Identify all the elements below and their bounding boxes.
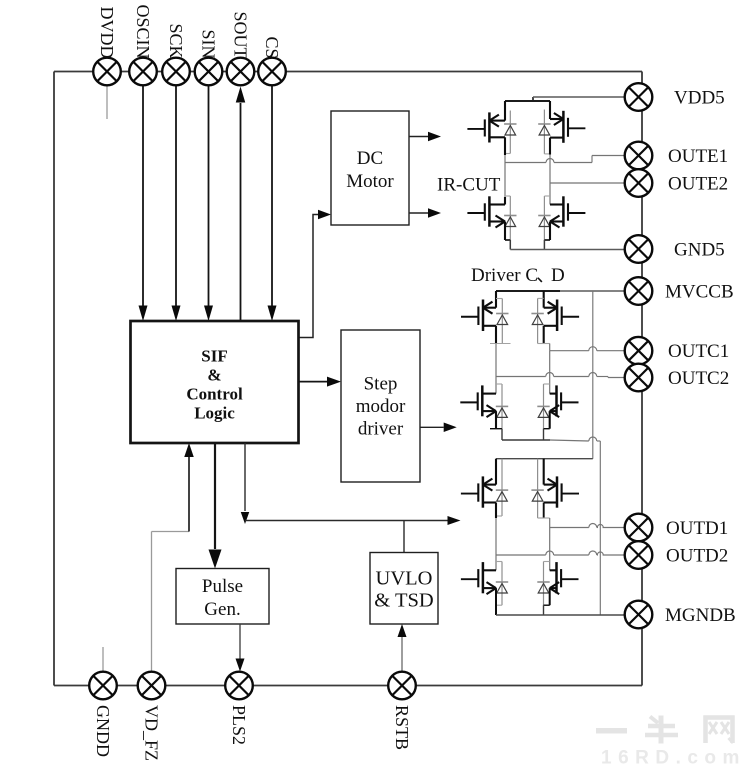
wire OUTD1 node to Q12 — [549, 528, 551, 571]
wire bridge E GND rail — [510, 249, 625, 251]
transistor Q11 — [482, 562, 485, 593]
wire Q8 source to C gnd rail — [549, 411, 551, 429]
wire Q9 source node — [495, 503, 497, 519]
block DC Motor — [331, 111, 409, 225]
pin SCK — [162, 58, 190, 86]
watermark yiniu char1 — [596, 728, 627, 734]
diode D9 — [501, 459, 503, 516]
wire SIF to Pulse Gen — [214, 443, 216, 549]
diode D11 — [501, 562, 503, 606]
wire bridge C VCC rail — [496, 290, 560, 292]
diode D6 — [537, 298, 539, 343]
wire DC Motor output 2 — [409, 212, 428, 214]
transistor Q10 — [543, 459, 545, 485]
svg-text:Control: Control — [186, 385, 243, 404]
svg-text:OUTC2: OUTC2 — [668, 368, 729, 389]
wire SCK to SIF — [175, 86, 177, 308]
block SIF & Control Logic U1 — [131, 321, 299, 443]
diode D1 — [509, 111, 511, 154]
pin OUTD2 — [625, 541, 653, 569]
svg-text:DVDD: DVDD — [97, 7, 117, 59]
transistor Q2 — [549, 101, 551, 119]
svg-text:OUTC1: OUTC1 — [668, 341, 729, 362]
block Pulse Gen — [176, 569, 269, 625]
pin RSTB — [388, 672, 416, 700]
wire DC Motor output 1 — [409, 136, 428, 138]
svg-text:MGNDB: MGNDB — [665, 605, 736, 626]
wire OUTC2 — [495, 344, 497, 377]
pin VDD5 — [625, 83, 653, 111]
svg-text:IR-CUT: IR-CUT — [437, 175, 501, 196]
svg-text:OUTE2: OUTE2 — [668, 173, 728, 194]
wire OUTC1 node to Q8 — [549, 351, 551, 394]
transistor Q3 — [488, 196, 491, 226]
svg-text:RSTB: RSTB — [392, 705, 412, 750]
watermark yiniu char3 — [706, 718, 733, 744]
wire SIF to Step driver — [299, 381, 327, 383]
svg-text:UVLO: UVLO — [376, 568, 433, 590]
wire CS to SIF — [271, 86, 273, 308]
wire Q3 source to GND rail — [504, 222, 506, 241]
wire OUTD1 — [550, 527, 589, 529]
wire Q5 source node — [495, 326, 497, 344]
svg-text:DC: DC — [357, 148, 383, 169]
svg-text:Gen.: Gen. — [204, 599, 240, 620]
wire top rail — [54, 71, 642, 73]
svg-text:driver: driver — [358, 418, 404, 439]
block UVLO & TSD — [370, 553, 438, 625]
wire OSCIN to SIF — [142, 86, 144, 308]
wire node to Q11 — [495, 555, 497, 570]
pin MVCCB — [625, 277, 653, 305]
wire SIF driver-D control — [244, 443, 246, 511]
svg-text:Logic: Logic — [194, 404, 235, 423]
wire Q12 source to MGNDB rail — [549, 588, 551, 605]
svg-text:SIF: SIF — [201, 347, 227, 366]
wire bridge C gnd rail to MGNDB feed — [502, 439, 550, 441]
svg-text:OUTD2: OUTD2 — [666, 545, 728, 566]
wire bridge D MGNDB rail — [496, 614, 625, 616]
pin GND5 — [625, 235, 653, 263]
pin OUTE1 — [625, 142, 653, 170]
svg-text:& TSD: & TSD — [374, 590, 433, 612]
wire right rail — [641, 72, 643, 686]
diode D12 — [543, 562, 545, 606]
wire SIF to DC Motor — [299, 215, 318, 338]
pin MGNDB — [625, 601, 653, 629]
svg-text:modor: modor — [356, 396, 406, 417]
diode D2 — [543, 110, 545, 154]
wire Q6 source node — [543, 326, 545, 344]
svg-text:SIN: SIN — [198, 29, 218, 58]
transistor Q5 — [495, 291, 497, 308]
diode D3 — [509, 196, 511, 240]
pin SOUT — [227, 58, 255, 86]
diode D8 — [543, 384, 545, 429]
svg-text:VDD5: VDD5 — [674, 87, 725, 108]
svg-text:&: & — [207, 366, 221, 385]
pin SIN — [195, 58, 223, 86]
wire node to Q7 — [495, 377, 497, 394]
svg-text:16RD.com: 16RD.com — [601, 748, 746, 769]
svg-text:OSCIN: OSCIN — [133, 4, 153, 58]
svg-text:GNDD: GNDD — [93, 705, 113, 757]
wire UVLO feed — [403, 521, 405, 553]
transistor Q8 — [555, 385, 558, 416]
wire Q7 source to C gnd rail — [495, 411, 497, 429]
wire OUTC1 — [549, 344, 551, 351]
wire SIF to SOUT — [240, 103, 242, 321]
svg-text:OUTE1: OUTE1 — [668, 146, 728, 167]
diode D10 — [537, 459, 539, 518]
diode D5 — [501, 299, 503, 344]
pin GNDD — [89, 672, 117, 700]
svg-text:MVCCB: MVCCB — [665, 281, 734, 302]
block Step modor driver — [341, 330, 420, 482]
pin OUTE2 — [625, 169, 653, 197]
svg-text:GND5: GND5 — [674, 239, 725, 260]
wire bridge E VDD rail — [505, 100, 550, 102]
pin DVDD — [93, 58, 121, 86]
svg-text:CS: CS — [262, 36, 282, 58]
transistor Q1 — [504, 101, 506, 121]
wire MVCCB to driver D feed — [592, 291, 594, 459]
svg-text:OUTD1: OUTD1 — [666, 518, 728, 539]
wire bottom rail — [54, 685, 642, 687]
wire OUTE2 — [550, 182, 625, 184]
wire RSTB to UVLO — [401, 635, 403, 672]
svg-text:Motor: Motor — [346, 171, 394, 192]
wire Q1 source to OUTE1 node — [504, 137, 506, 155]
diode D4 — [543, 196, 545, 240]
watermark yiniu char2 — [659, 716, 664, 744]
wire OUTE1 — [505, 162, 546, 164]
svg-text:PLS2: PLS2 — [229, 705, 249, 745]
wire OUTE1 node to Q3 — [504, 163, 506, 198]
transistor Q7 — [481, 385, 484, 416]
pin VD_FZ — [138, 672, 166, 700]
diode D7 — [501, 384, 503, 429]
transistor Q4 — [549, 183, 551, 205]
pin OUTC2 — [625, 364, 653, 392]
svg-text:Pulse: Pulse — [202, 576, 243, 597]
pin PLS2 — [225, 672, 253, 700]
wire Q2 source to OUTE2 node — [549, 138, 551, 155]
svg-text:Step: Step — [364, 374, 398, 395]
pin OUTC1 — [625, 337, 653, 365]
wire SIN to SIF — [208, 86, 210, 308]
svg-text:SOUT: SOUT — [230, 11, 250, 58]
pin OUTD1 — [625, 514, 653, 542]
pin OSCIN — [129, 58, 157, 86]
svg-text:SCK: SCK — [166, 23, 186, 58]
wire Q4 source to GND rail — [549, 222, 551, 241]
transistor Q12 — [555, 562, 558, 593]
svg-text:VD_FZ: VD_FZ — [141, 705, 161, 761]
wire Q11 source to MGNDB rail — [495, 588, 497, 615]
pin CS — [258, 58, 286, 86]
transistor Q9 — [495, 459, 497, 485]
wire VD_FZ to SIF — [151, 532, 153, 672]
wire Q10 source node — [543, 503, 545, 519]
wire GNDD stub — [102, 647, 104, 672]
transistor Q6 — [543, 291, 545, 308]
wire bridge D top rail — [496, 458, 593, 460]
wire Pulse Gen to PLS2 — [239, 624, 241, 659]
svg-text:Driver C、D: Driver C、D — [471, 265, 565, 286]
wire Step driver output arrow — [420, 426, 444, 428]
wire OUTD2 — [496, 554, 546, 556]
wire left border — [53, 72, 55, 686]
wire DVDD stub — [106, 86, 108, 120]
